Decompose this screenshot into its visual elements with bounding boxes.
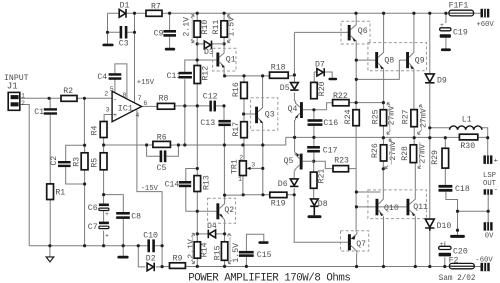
svg-text:+: +	[494, 157, 498, 165]
svg-text:R5: R5	[91, 158, 100, 168]
wire: R23 row	[314, 161, 357, 168]
ground bar below C9	[165, 48, 175, 51]
wire: input row J1 pin1 to IC1 pin2	[20, 97, 112, 99]
wire: Q8 base tap	[356, 59, 375, 61]
svg-text:R23: R23	[334, 156, 349, 165]
wire: R14 column and Q2 base	[197, 211, 224, 266]
wire: IC1 output to R8	[142, 105, 158, 107]
resistor R21	[310, 169, 326, 189]
ground bar top left	[102, 44, 113, 47]
resistor R20	[311, 81, 327, 98]
svg-text:2: 2	[239, 155, 243, 162]
capacitor C8	[116, 212, 141, 222]
capacitor C6	[88, 204, 109, 218]
resistor R15	[214, 242, 228, 260]
capacitor C18	[439, 185, 470, 194]
op-amp IC1	[104, 86, 147, 122]
svg-text:R30: R30	[460, 142, 475, 151]
svg-text:R13: R13	[202, 175, 211, 190]
transistor Q9	[406, 50, 425, 70]
svg-text:D8: D8	[318, 200, 328, 209]
svg-text:1: 1	[21, 93, 25, 100]
wire: R18 to D5 node	[288, 75, 294, 77]
svg-text:D2: D2	[146, 254, 156, 263]
wire: feedback rail y145	[104, 137, 286, 145]
resistor R8	[157, 94, 174, 109]
resistor R1	[47, 184, 66, 200]
svg-text:R27: R27	[402, 109, 411, 124]
svg-text:R18: R18	[271, 63, 286, 72]
wire: LSP plus drop	[487, 138, 489, 156]
capacitor C14	[165, 180, 192, 189]
svg-text:IC1: IC1	[118, 104, 133, 114]
svg-text:Q6: Q6	[358, 27, 368, 36]
wire: Q8 collector emitter column	[382, 13, 384, 196]
svg-text:C8: C8	[131, 213, 141, 222]
diode D8	[310, 199, 328, 215]
resistor R19	[270, 192, 287, 208]
svg-text:-: -	[113, 97, 117, 104]
capacitor C15	[239, 251, 272, 260]
capacitor C10	[143, 231, 158, 252]
wire: Q4 Q5 emitter column to output rail	[294, 120, 296, 152]
wire: Q2 collector and emitter column	[225, 195, 244, 266]
svg-text:7: 7	[138, 95, 142, 102]
svg-text:C6: C6	[88, 204, 98, 213]
svg-text:+: +	[113, 112, 117, 119]
svg-text:R16: R16	[232, 82, 241, 97]
svg-text:3: 3	[251, 162, 255, 169]
resistor R10	[194, 20, 210, 38]
svg-text:27mV: 27mV	[387, 106, 396, 126]
wire: Q1 base	[197, 59, 216, 61]
diode D2	[146, 254, 156, 271]
svg-text:Q4: Q4	[288, 105, 298, 114]
wire: ground rail	[29, 246, 138, 257]
wire: top positive supply rail	[108, 12, 481, 14]
capacitor C5	[157, 150, 167, 173]
wire: C19 column	[445, 13, 447, 48]
svg-text:Q10: Q10	[384, 204, 399, 213]
svg-text:+15V: +15V	[137, 79, 155, 87]
wire: D1 anode branch down to ground bar	[107, 13, 109, 43]
annotation 27mV R28	[418, 144, 427, 169]
wire: 0V net	[446, 192, 488, 235]
wire: Q7 collector drop	[356, 254, 358, 267]
svg-text:Q11: Q11	[413, 203, 428, 212]
wire: D5 column Q6 base riser	[294, 32, 347, 101]
svg-text:D5: D5	[280, 84, 290, 93]
transistor Q3	[251, 98, 278, 131]
terminal -60V	[475, 257, 493, 272]
svg-text:R21: R21	[317, 169, 326, 184]
annotation guide lines	[192, 17, 421, 262]
transistor Q8	[375, 50, 394, 70]
wire: TR1 wiper riser	[253, 145, 263, 195]
resistor R4	[91, 122, 107, 138]
wire: C9 column	[169, 13, 171, 48]
annotation 2.1V bottom	[187, 233, 196, 263]
wire: R4 R5 column to C6 C7	[103, 138, 105, 246]
capacitor C4	[97, 73, 121, 82]
svg-text:R10: R10	[201, 20, 210, 35]
svg-text:R19: R19	[271, 200, 286, 209]
ground bar below D8	[308, 215, 322, 218]
svg-text:27mV: 27mV	[389, 141, 398, 161]
svg-text:D10: D10	[437, 222, 452, 231]
svg-text:C16: C16	[323, 119, 338, 128]
wire: C4 loop pin5 to pin8	[115, 64, 127, 98]
resistor R9	[170, 255, 186, 269]
svg-text:6: 6	[143, 100, 147, 107]
svg-text:C5: C5	[157, 164, 167, 173]
diode D1	[119, 1, 129, 17]
connector J1	[4, 74, 29, 110]
diode D3	[197, 41, 224, 57]
svg-text:POWER AMPLIFIER 170W/8 Ohms: POWER AMPLIFIER 170W/8 Ohms	[188, 272, 350, 283]
wire: Q4 base to R22 jog	[303, 103, 333, 110]
dashed box around Q8 Q9	[368, 43, 427, 71]
svg-text:1: 1	[238, 176, 242, 183]
transistor Q2	[208, 198, 236, 224]
svg-text:R11: R11	[212, 20, 221, 35]
svg-text:R15: R15	[214, 245, 223, 260]
wire: R10 R12 column	[196, 13, 198, 106]
wire: IC1 pin3 to R4	[104, 115, 112, 122]
transistor Q6	[341, 21, 370, 44]
inductor L1	[450, 115, 482, 129]
wire: Q9 base L path	[356, 60, 406, 79]
resistor R18	[270, 63, 289, 78]
transistor Q5	[284, 152, 314, 171]
svg-text:C14: C14	[165, 180, 180, 189]
svg-text:Q9: Q9	[415, 57, 425, 66]
svg-text:C18: C18	[455, 185, 470, 194]
wire: R16 R17 TR1 column	[243, 76, 255, 195]
svg-text:C15: C15	[257, 251, 272, 260]
resistor R24	[344, 109, 359, 125]
fuse F2	[449, 256, 475, 268]
capacitor C9	[154, 30, 176, 39]
svg-text:R14: R14	[201, 242, 210, 257]
resistor R6	[153, 133, 171, 147]
wire: C15 column and bar terminal	[246, 234, 263, 266]
resistor R11	[212, 20, 227, 38]
fuse F1	[449, 2, 474, 16]
svg-text:Q3: Q3	[265, 111, 275, 120]
svg-text:R25: R25	[371, 109, 380, 124]
wire: output mid rail	[286, 136, 488, 138]
svg-text:R20: R20	[318, 81, 327, 96]
annotation 27mV R26	[385, 139, 398, 169]
capacitor C2	[50, 156, 71, 167]
wire: Q6 collector emitter column	[355, 13, 357, 102]
wire: D9 column	[429, 13, 431, 138]
svg-text:2: 2	[104, 90, 108, 97]
wire: Q9 collector emitter column	[414, 13, 415, 196]
svg-text:Q8: Q8	[384, 57, 394, 66]
svg-text:L1: L1	[462, 115, 472, 124]
svg-text:R17: R17	[232, 122, 241, 137]
wire: lower rail left R9 to C15	[162, 266, 480, 268]
svg-text:C1: C1	[34, 108, 44, 117]
transistor Q1	[213, 48, 236, 71]
annotation 1.5V bottom	[228, 234, 241, 264]
svg-text:D9: D9	[437, 77, 447, 86]
wire: driver column R24 down to Q7	[356, 103, 406, 232]
wire: R22 right to Q8 emitter node	[349, 102, 383, 104]
resistor R5	[91, 153, 107, 170]
ground symbol	[46, 257, 54, 262]
svg-text:C7: C7	[88, 223, 98, 232]
diode D10	[425, 219, 451, 231]
transistor Q7	[341, 231, 369, 254]
wire: C20 column	[444, 242, 446, 267]
svg-text:Q5: Q5	[284, 157, 294, 166]
svg-text:R8: R8	[159, 94, 169, 103]
wire: Q1 emitter to row 75.9	[224, 69, 269, 76]
resistor R26	[371, 143, 387, 161]
svg-text:C2: C2	[50, 156, 59, 166]
wire: D6 node down to Q7 base	[294, 195, 348, 242]
wire: R8 output node row y106	[175, 105, 224, 107]
svg-text:R1: R1	[55, 188, 65, 197]
wire: D7 row	[314, 72, 332, 82]
capacitor C3	[119, 26, 129, 48]
wire: C1 R1 column	[49, 98, 51, 245]
svg-text:5: 5	[110, 86, 114, 93]
resistor R28	[401, 145, 417, 163]
transistor Q4	[288, 101, 303, 121]
capacitor C17	[307, 146, 337, 156]
diode D9	[425, 74, 447, 86]
wire: R11 column and Q1 collector	[223, 13, 225, 48]
resistor R7	[146, 2, 162, 16]
svg-text:+60V: +60V	[476, 21, 494, 29]
annotation 27mV R27	[418, 105, 429, 134]
diode D4	[207, 222, 217, 238]
resistor R25	[371, 109, 386, 125]
transistor Q10	[376, 196, 399, 216]
transistor Q11	[407, 196, 429, 216]
svg-text:R24: R24	[344, 109, 353, 124]
svg-text:Q7: Q7	[356, 240, 366, 249]
wire: J1 pin2 down to ground rail	[20, 105, 29, 246]
annotation 2.1V top	[182, 15, 194, 43]
resistor R14	[194, 242, 210, 258]
svg-text:C17: C17	[323, 147, 338, 156]
ground bar below C19	[441, 48, 451, 51]
wire: C10 D2 loop	[138, 246, 162, 267]
svg-text:F1F1: F1F1	[449, 2, 469, 11]
wire: R19 row	[243, 194, 294, 196]
svg-text:J1: J1	[7, 81, 19, 92]
svg-text:D6: D6	[278, 180, 288, 189]
svg-text:4: 4	[135, 112, 139, 119]
terminal LSP minus	[484, 186, 499, 194]
wire: C13 column	[223, 106, 225, 145]
svg-text:R12: R12	[202, 66, 211, 81]
resistor R12	[194, 66, 211, 84]
capacitor C20	[439, 241, 468, 257]
ground bar below D7	[329, 78, 338, 80]
resistor R23	[333, 156, 349, 171]
wire: R29 C18 column	[444, 138, 446, 185]
terminal 0V	[484, 222, 495, 240]
capacitor C13	[200, 119, 230, 128]
svg-text:0V: 0V	[485, 233, 494, 241]
svg-text:C12: C12	[203, 93, 218, 102]
diode D5	[280, 83, 299, 94]
wire: C3 row	[108, 13, 135, 102]
svg-text:+: +	[105, 211, 109, 218]
wire: R13 column	[196, 106, 198, 242]
svg-text:R29: R29	[431, 150, 440, 165]
svg-text:+: +	[105, 232, 109, 239]
wire: L1 branch	[430, 128, 488, 138]
wire: C2 R3 parallel loop	[66, 145, 85, 246]
svg-text:Sam 2/02: Sam 2/02	[439, 275, 476, 283]
wire: C14 parallel loop	[186, 169, 198, 212]
capacitor C19	[440, 22, 468, 38]
svg-text:R2: R2	[63, 87, 73, 96]
svg-text:C3: C3	[119, 39, 129, 48]
wire: D10 column	[429, 138, 431, 267]
resistor R30	[459, 134, 477, 151]
svg-text:2.1V: 2.1V	[182, 17, 191, 37]
svg-text:R26: R26	[371, 143, 380, 158]
wire: Q3 collector and emitter risers	[262, 76, 264, 145]
resistor R16	[232, 82, 248, 98]
resistor R2	[61, 87, 77, 101]
wire: Q5 collector to D6	[293, 171, 295, 195]
svg-text:C4: C4	[97, 73, 107, 82]
capacitor C7	[88, 222, 109, 240]
dashed box around Q10 Q11	[368, 190, 427, 219]
svg-text:3: 3	[106, 107, 110, 114]
trimmer TR1	[230, 155, 255, 183]
wire: C13 node down to Q2 collector row	[223, 145, 225, 195]
diode D6	[278, 179, 299, 189]
svg-text:C10: C10	[143, 231, 158, 240]
capacitor C16	[308, 119, 339, 128]
svg-text:R4: R4	[91, 125, 100, 135]
svg-text:-: -	[494, 186, 498, 194]
terminal LSP plus	[483, 155, 498, 165]
svg-text:2: 2	[21, 100, 25, 107]
svg-text:8: 8	[123, 92, 127, 99]
terminal +60V	[476, 9, 494, 29]
svg-text:R28: R28	[401, 146, 410, 161]
svg-text:Q2: Q2	[224, 206, 234, 215]
wire: C5 parallel loop under R6	[147, 145, 179, 156]
resistor R29	[431, 148, 449, 168]
svg-text:D1: D1	[120, 1, 130, 10]
resistor R27	[402, 109, 418, 126]
svg-text:C9: C9	[154, 30, 164, 39]
svg-text:-15V: -15V	[141, 185, 159, 193]
annotation 27mV R25	[387, 103, 396, 134]
svg-text:C19: C19	[453, 29, 468, 38]
wire: feedback node column R2 right to C2R3	[83, 98, 85, 145]
resistor R3	[72, 153, 88, 170]
wire: Q10 Q11 emitter drops	[384, 216, 416, 266]
svg-text:C13: C13	[200, 119, 215, 128]
wire: C8 branch	[104, 195, 124, 246]
wire: C16 C17 column	[313, 110, 315, 199]
wire: IC1 pin4 to -15V run	[137, 110, 162, 267]
resistor R22	[333, 92, 349, 106]
resistor R17	[232, 122, 248, 138]
svg-text:TR1: TR1	[230, 159, 239, 174]
capacitor C1	[34, 108, 57, 117]
ground bar 0V net	[450, 235, 465, 238]
svg-text:C20: C20	[453, 248, 468, 257]
capacitor C11	[167, 72, 192, 81]
wire: C11 jog from R10 column	[185, 60, 197, 145]
bar terminal above C15	[258, 241, 268, 244]
annotation 1.5V top	[227, 15, 236, 43]
svg-text:R3: R3	[72, 157, 81, 167]
svg-text:Q1: Q1	[226, 56, 236, 65]
diode D7	[315, 60, 325, 76]
resistor R13	[194, 175, 211, 191]
ground bar below C8	[117, 256, 128, 259]
capacitor C12	[203, 93, 218, 112]
